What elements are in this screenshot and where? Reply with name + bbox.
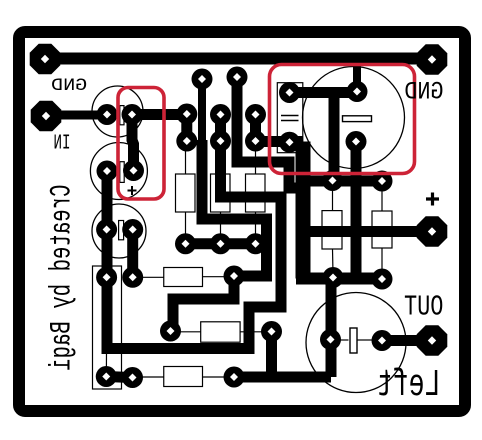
capacitor C4 bar	[343, 116, 372, 122]
pad C7-1	[320, 329, 341, 350]
wire to plus pad	[296, 226, 425, 237]
red highlight rect 2	[270, 65, 415, 174]
lead C8 internal	[105, 352, 107, 368]
capacitor C6b outline	[372, 211, 392, 248]
label plus small	[128, 186, 137, 195]
pad Q6	[245, 131, 266, 152]
pad R4-2	[224, 266, 245, 287]
wire OUT	[382, 335, 425, 346]
red highlight rect 1	[118, 88, 164, 200]
pad G1	[192, 69, 213, 90]
wire C5 bar	[256, 136, 304, 147]
lead R6 left	[138, 376, 164, 378]
capacitor C3 stripe	[119, 221, 124, 240]
node A path	[202, 140, 267, 276]
lead R5 left	[175, 331, 201, 333]
capacitor C3 outline	[92, 204, 146, 258]
wire GND top bus	[45, 53, 432, 65]
wire top cap bar	[290, 87, 357, 98]
lead R1 top	[185, 146, 187, 174]
pad C8-3	[96, 366, 117, 387]
pad R6-2	[224, 367, 245, 388]
resistor R6 outline	[164, 367, 203, 387]
octagon pad PLUS	[417, 216, 448, 247]
wire C1 to C2	[132, 115, 134, 171]
capacitor C6a outline	[322, 211, 342, 249]
wire bottom gnd	[234, 372, 331, 383]
wire Q5-Q6	[250, 115, 261, 142]
pad C1-1	[97, 104, 118, 125]
wire pad K down	[266, 334, 277, 377]
svg-text:Left: Left	[377, 364, 441, 407]
wire OUT cap left down	[326, 279, 337, 378]
pad C4-minus	[346, 131, 367, 152]
pad C3-2	[122, 219, 143, 240]
capacitor C2 outline	[90, 143, 147, 200]
lead C6a top	[332, 189, 334, 211]
pad Q4	[210, 131, 231, 152]
capacitor C7 bar	[350, 328, 357, 353]
capacitor C7 outline	[306, 293, 406, 393]
capacitor C1 stripe	[120, 106, 124, 125]
pad G2	[227, 67, 248, 88]
capacitor C1 outline	[92, 86, 143, 137]
wire C2 minus rail and gnd loop	[107, 141, 281, 349]
lead R3 bottom	[255, 212, 257, 240]
lead C7 right	[358, 339, 374, 341]
svg-text:GND: GND	[404, 78, 443, 107]
capacitor C4 outline	[303, 67, 405, 169]
wire pad row link	[186, 238, 256, 249]
pad C6a-2	[323, 267, 344, 288]
octagon pad IN	[31, 101, 62, 132]
lead C7 left	[339, 339, 349, 341]
svg-text:GND: GND	[51, 75, 87, 95]
resistor R5 outline	[201, 322, 240, 342]
pad C4-plus	[347, 81, 368, 102]
pad Q1	[176, 104, 197, 125]
pad C3-1	[96, 219, 117, 240]
pad C5-2	[279, 132, 300, 153]
wire Q3-Q4	[215, 115, 226, 142]
capacitor C8 outline tall	[93, 266, 122, 389]
lead R4 left	[138, 276, 164, 278]
wire GND stub to C4 plus pad	[353, 60, 361, 92]
octagon pad OUT	[417, 325, 448, 356]
svg-text:Created by Bagi: Created by Bagi	[45, 185, 79, 371]
wire C4 minus down	[351, 142, 362, 279]
lead C6a bottom	[332, 249, 335, 274]
pad C2-1	[97, 161, 118, 182]
label plus big	[426, 193, 439, 206]
pad C6b-1	[372, 171, 393, 192]
lead R4 right	[203, 276, 231, 278]
pad Q2	[176, 131, 197, 152]
pad R5-2	[261, 321, 282, 342]
pad C8-1	[96, 267, 117, 288]
wire Q1-Q2	[181, 114, 192, 141]
pad C6b-2	[372, 269, 393, 290]
octagon pad GND-TR	[417, 44, 448, 75]
wire IN to C1	[46, 111, 107, 120]
wire bottom-left pads	[106, 377, 132, 378]
capacitor C5 outline	[277, 83, 303, 153]
resistor R3 outline	[246, 174, 266, 212]
wire pad G1 stem	[198, 79, 206, 142]
svg-text:IN: IN	[53, 132, 70, 155]
board outline	[19, 32, 465, 411]
lead R6 right	[203, 376, 230, 378]
lead R3 top	[255, 146, 257, 174]
resistor R1 outline	[176, 174, 196, 212]
lead R5 right	[240, 331, 265, 333]
pad R5-1	[160, 321, 181, 342]
wire GND band	[296, 273, 382, 285]
wire F1-F2 link	[297, 176, 382, 187]
pad C2-2	[123, 160, 144, 181]
pad Q3	[210, 104, 231, 125]
lead C6b bottom	[381, 248, 383, 275]
octagon pad GND-TL	[30, 44, 61, 75]
pad C6a-1	[322, 170, 343, 191]
pad C1-2	[122, 104, 143, 125]
pad R6-1	[122, 367, 143, 388]
lead C6b top	[381, 189, 383, 211]
pad C5-1	[279, 82, 300, 103]
wire GND column	[296, 142, 311, 279]
resistor R4 outline	[164, 268, 203, 287]
svg-text:OUT: OUT	[404, 291, 443, 324]
pad C8-2	[122, 267, 143, 288]
resistor R2 outline	[211, 174, 231, 212]
wire R4 pad zigzag	[173, 278, 234, 329]
lead R2 bottom	[220, 212, 222, 240]
pad row-L	[175, 233, 196, 254]
pad C7-2	[372, 330, 393, 351]
wire C3 plus down	[127, 230, 138, 278]
pad row-M	[210, 233, 231, 254]
wire pad G2 stem	[237, 77, 299, 188]
capacitor C2 stripe	[120, 162, 124, 183]
pad Q5	[245, 104, 266, 125]
pad row-R	[245, 233, 266, 254]
wire C1 to node Q1	[132, 109, 187, 120]
lead R1 bottom	[185, 212, 187, 240]
capacitor C5 plates	[281, 115, 299, 117]
wire bar to F1	[329, 93, 340, 176]
